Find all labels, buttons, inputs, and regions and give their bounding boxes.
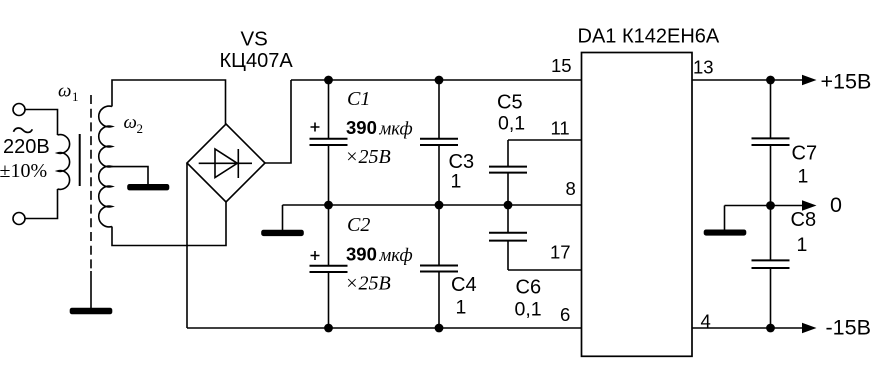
svg-text:ω: ω: [58, 81, 71, 102]
input terminal bottom: [13, 213, 25, 225]
wire W2 bottom to bridge: [112, 202, 226, 246]
svg-text:390: 390: [346, 117, 377, 138]
svg-text:C8: C8: [791, 209, 817, 231]
shield (dashed): [90, 95, 92, 271]
svg-text:390: 390: [346, 244, 377, 265]
svg-text:±10%: ±10%: [0, 160, 47, 182]
capacitor C5: [507, 140, 509, 166]
wire middle rail: [283, 204, 582, 206]
svg-text:DA1 К142ЕН6А: DA1 К142ЕН6А: [578, 26, 720, 48]
ground (middle rail): [262, 231, 303, 236]
capacitor C1: [328, 80, 330, 138]
svg-text:1: 1: [451, 171, 462, 193]
svg-text:VS: VS: [241, 28, 268, 51]
svg-text:6: 6: [560, 304, 570, 325]
svg-text:4: 4: [701, 311, 711, 332]
plus sign C1: [311, 123, 320, 132]
arrow +15V: [802, 75, 817, 85]
svg-text:×25В: ×25В: [345, 273, 391, 295]
node -15V C8: [766, 324, 775, 333]
input terminal top: [13, 104, 25, 116]
svg-text:1: 1: [797, 234, 808, 256]
op-amp / regulator IC DA1: [582, 53, 693, 357]
capacitor C6: [507, 205, 509, 232]
bridge rectifier VS diamond: [187, 124, 265, 202]
node +15V C7: [766, 76, 775, 85]
svg-text:1: 1: [798, 166, 809, 188]
transformer core: [79, 134, 81, 186]
wire pin 4 to -15V: [692, 327, 803, 329]
node bottom rail C2: [324, 324, 333, 333]
capacitor C3: [438, 80, 440, 138]
svg-text:1: 1: [72, 89, 79, 104]
svg-text:0,1: 0,1: [515, 299, 542, 321]
primary winding W1: [58, 135, 70, 190]
wire input top: [25, 110, 58, 136]
svg-text:1: 1: [456, 297, 467, 319]
wire bottom rail: [187, 327, 582, 329]
capacitor C8: [770, 206, 772, 261]
svg-text:C1: C1: [347, 88, 370, 110]
svg-text:0: 0: [830, 193, 842, 217]
node 0 C7/C8: [766, 201, 775, 210]
secondary winding W2: [99, 106, 112, 227]
wire pin 17: [508, 269, 582, 271]
svg-text:15: 15: [551, 55, 572, 76]
node bottom rail C4: [435, 324, 444, 333]
svg-text:C2: C2: [347, 214, 370, 236]
wire W2 top to bridge: [112, 80, 226, 124]
svg-text:2: 2: [137, 121, 144, 136]
arrow 0: [802, 200, 817, 210]
svg-text:+15В: +15В: [821, 70, 872, 94]
svg-text:C4: C4: [451, 274, 477, 296]
wire middle rail to ground: [282, 205, 284, 231]
svg-text:17: 17: [550, 242, 571, 263]
svg-text:13: 13: [693, 57, 714, 78]
wire bridge plus to top rail: [265, 80, 291, 163]
AC tilde: [14, 128, 33, 132]
svg-text:мкф: мкф: [379, 120, 413, 140]
wire W2 center tap: [110, 167, 148, 185]
svg-text:8: 8: [566, 178, 576, 199]
wire 0 to ground: [724, 206, 726, 231]
capacitor C4: [438, 205, 440, 265]
wire pin 11: [508, 139, 582, 141]
arrow -15V: [802, 323, 817, 333]
ground (center tap): [128, 185, 169, 190]
svg-text:ω: ω: [124, 112, 137, 133]
plus sign C2: [311, 251, 320, 260]
wire input bottom: [25, 189, 58, 219]
wire top rail: [291, 79, 582, 81]
node top rail C1: [324, 76, 333, 85]
node mid rail C3/C4: [435, 201, 444, 210]
wire bridge minus down: [186, 163, 188, 328]
svg-text:220В: 220В: [3, 136, 50, 158]
svg-text:мкф: мкф: [379, 246, 413, 266]
ground (shield): [71, 309, 112, 314]
svg-text:-15В: -15В: [826, 316, 871, 340]
svg-text:КЦ407А: КЦ407А: [220, 50, 294, 72]
wire shield to ground: [90, 271, 92, 309]
svg-text:C6: C6: [516, 277, 542, 299]
svg-text:11: 11: [551, 117, 570, 138]
node mid rail C1/C2: [324, 201, 333, 210]
diode inside bridge: [199, 162, 252, 164]
node top rail C3: [435, 76, 444, 85]
svg-text:C7: C7: [792, 143, 818, 165]
svg-text:×25В: ×25В: [345, 146, 391, 168]
ground (output 0): [705, 230, 746, 235]
node mid rail C5/C6: [504, 201, 513, 210]
wire 0 output: [725, 205, 804, 207]
svg-text:C5: C5: [497, 92, 523, 114]
svg-text:0,1: 0,1: [498, 113, 525, 135]
capacitor C2: [328, 205, 330, 265]
wire pin 13 to +15V: [692, 79, 803, 81]
capacitor C7: [770, 80, 772, 138]
